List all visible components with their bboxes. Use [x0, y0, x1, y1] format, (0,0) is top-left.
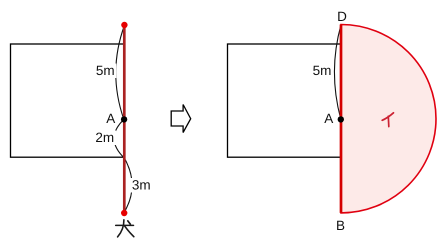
svg-text:3m: 3m: [132, 178, 151, 193]
left figure: building rectangle: [11, 44, 125, 157]
right 5m measurement arc: [334, 25, 341, 119]
svg-text:D: D: [337, 9, 347, 24]
label dog kanji (inu) drawn as strokes: [116, 220, 134, 237]
svg-text:5m: 5m: [313, 63, 332, 78]
svg-text:B: B: [336, 218, 345, 233]
left 2m measurement arc: [114, 120, 124, 159]
right red diameter line D-B: [340, 25, 343, 213]
right figure: building rectangle: [228, 44, 342, 157]
left red rope line: [123, 25, 126, 213]
svg-text:2m: 2m: [95, 130, 114, 145]
label katakana i (region marker) drawn as strokes: [382, 113, 393, 127]
svg-text:5m: 5m: [96, 63, 115, 78]
label 2m (white backing): [94, 131, 116, 146]
transform arrow between figures: [171, 105, 191, 133]
left 5m measurement arc: [116, 26, 125, 120]
left point A dot: [121, 116, 127, 122]
svg-text:A: A: [324, 111, 333, 126]
right figure: semicircle region (half disc): [341, 25, 436, 213]
svg-text:A: A: [106, 111, 115, 126]
label 3m (white backing): [130, 178, 151, 193]
label 5m left (white backing): [94, 64, 116, 79]
right point A dot: [338, 116, 344, 122]
left bottom red dot (dog): [121, 210, 127, 216]
left top red dot: [121, 22, 127, 28]
left 3m measurement arc: [124, 158, 132, 213]
